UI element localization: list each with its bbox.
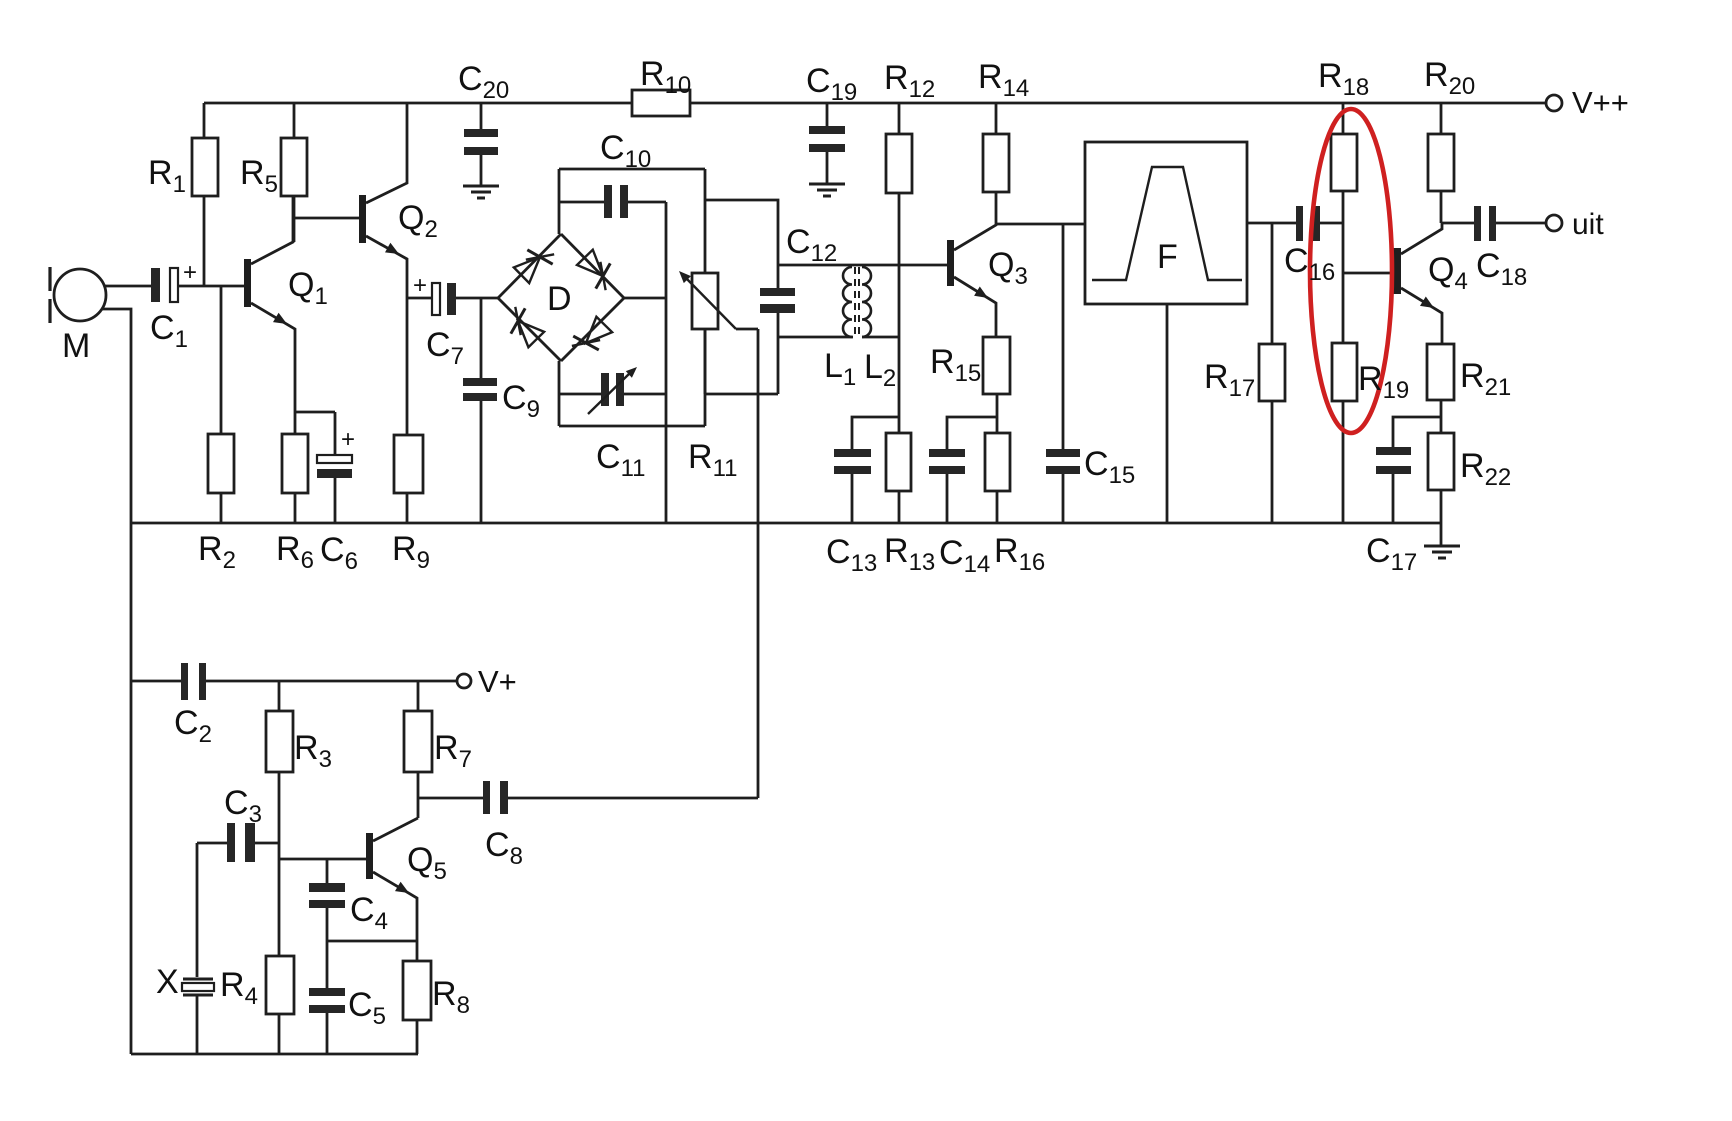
svg-text:X: X [156,963,179,1001]
wire bridge frame left upper [558,169,561,234]
transistor Q2 [359,103,407,298]
transistor Q3 [947,224,996,337]
diode D top-right [577,250,610,290]
capacitor C12 [760,288,795,394]
wire M to C1 [104,285,152,288]
wire R11 bottom to C12 foot [705,393,778,396]
diode D top-left [514,250,554,283]
transistor Q1 [244,196,295,434]
capacitor C14 [929,417,997,523]
ground main [1424,546,1460,558]
wire R22 to ground [1440,490,1443,546]
wire Q5 base wire [279,858,366,861]
wire bridge frame bottom [559,425,705,428]
label R16 [994,532,1045,576]
wire R20 bottom lead [1440,191,1443,223]
capacitor C3 [197,823,255,862]
label C15 [1084,445,1135,489]
wire wiper drop to oscillator [757,329,760,798]
capacitor C4 [309,859,345,988]
label C5 [348,986,386,1030]
capacitor C2 [181,663,206,700]
label R20 [1424,56,1475,100]
wire bridge frame left lower [558,361,561,426]
wire R2 bottom lead [220,493,223,523]
wire R6 bottom lead [294,493,297,523]
wire Q4 collector to C18 [1442,222,1474,225]
label F [1157,238,1178,276]
label C12 [786,223,837,267]
capacitor C1 [151,259,197,302]
wire R12 to R13 [898,193,901,433]
capacitor C17 [1376,447,1411,523]
label C13 [826,533,877,577]
resistor R4 [266,956,294,1014]
wire bridge frame right lower [704,329,707,426]
wire Q2 emitter to C7 [407,297,432,300]
capacitor C5 [309,988,345,1054]
svg-text:uit: uit [1572,208,1604,241]
wire C10 node vertical [665,202,668,523]
resistor R13 [886,433,911,491]
transistor Q4 [1393,223,1442,344]
label R10 [640,55,691,99]
wire C3 to R3 node [255,842,279,845]
resistor R20 [1428,134,1454,191]
wire C2 to V+ terminal [206,680,457,683]
wire bottom bus [131,522,1441,525]
label L2 [864,348,896,392]
diode bridge D outline [498,234,624,361]
wire R14 bottom lead [995,192,998,224]
diode D bottom-left [511,307,544,347]
capacitor C20 [464,103,498,186]
svg-text:+: + [183,259,197,286]
label C3 [224,784,262,828]
capacitor C8 [483,781,508,814]
label X [156,963,179,1001]
capacitor C18 [1474,206,1496,241]
label R7 [434,729,472,773]
label R3 [294,729,332,773]
label C10 [600,129,651,173]
wire R1 bottom lead [203,196,206,286]
label R12 [884,59,935,103]
capacitor C9 [463,298,497,523]
wire R17 leads [1271,223,1274,523]
wire C3 to crystal [196,843,199,977]
label C11 [596,438,645,482]
label R18 [1318,57,1369,101]
label M [62,327,90,365]
label C6 [320,531,358,575]
diode D bottom-right [572,317,612,350]
transistor Q5 [366,818,418,961]
label R2 [198,530,236,574]
resistor R21 [1427,344,1454,400]
label R9 [392,530,430,574]
wire bridge right corner to node [624,297,666,300]
capacitor C13 [834,417,899,523]
wire R18-R19 vertical [1342,191,1345,343]
terminal V++ [1546,85,1629,120]
wire R21 to R22 [1440,400,1443,433]
resistor R15 [983,337,1010,394]
wire V+ feed [131,680,181,683]
wire R4 bottom lead [278,1014,281,1054]
label R21 [1460,357,1511,401]
label C17 [1366,532,1417,576]
label R8 [432,975,470,1019]
wire R13 bottom lead [898,491,901,523]
label R13 [884,532,935,576]
capacitor C7 [413,272,456,315]
label R4 [220,966,258,1010]
wire R3 to R4 vertical [278,772,281,956]
label C19 [806,62,857,106]
resistor R6 [282,434,308,493]
wire M bottom to left bus [102,309,131,1054]
resistor R10 [632,90,690,116]
wire R11 bottom lead [704,329,707,394]
resistor R14 [983,134,1009,192]
terminal V+ [457,664,517,699]
wire C12 top to Q3 base [778,264,947,267]
wire R12 top lead [898,103,901,134]
label C9 [502,379,540,423]
resistor R11 [692,273,718,329]
microphone M [50,267,106,323]
resistor R12 [886,134,912,193]
capacitor C16 [1296,206,1320,241]
capacitor C15 [1046,224,1080,523]
ground at C20 [463,186,499,198]
capacitor C11 variable [559,367,666,414]
label Q5 [407,841,447,885]
wire C1 to Q1 base [178,285,244,288]
label Q4 [1428,251,1468,295]
wire Q3 collector to F [996,223,1085,226]
resistor R17 [1259,344,1285,401]
resistor R2 [208,434,234,493]
resistor R9 [394,435,423,493]
label C4 [350,891,388,935]
wire emitter node jog to C17 [1393,417,1441,447]
svg-text:M: M [62,327,90,365]
wire R11 wiper [679,271,758,329]
transformer core [855,267,859,337]
label R19 [1358,360,1409,404]
wire Q4 base wire [1343,272,1393,275]
svg-text:D: D [547,280,572,318]
wire C4 bottom jog to emitter [327,940,417,943]
label D [547,280,572,318]
label C1 [150,309,188,353]
filter block F [1085,142,1247,304]
wire R9 leads [406,298,409,523]
wire C7 to bridge [456,297,498,300]
label R15 [930,343,981,387]
wire R7 top lead [417,681,420,711]
label R14 [978,58,1029,102]
label R5 [240,154,278,198]
crystal X [182,979,214,1054]
wire C16 to R18 node [1320,222,1343,225]
wire C18 to uit [1496,222,1546,225]
capacitor C19 [809,103,845,184]
wire R3 top lead [278,681,281,711]
wire node to C12 top [705,200,778,288]
capacitor C10 [559,185,666,218]
label R17 [1204,358,1255,402]
svg-text:V++: V++ [1572,85,1629,120]
wire R1 top lead [203,103,206,138]
wire R5 top lead [293,103,296,138]
wire R15 bottom lead [996,394,999,433]
label C14 [939,534,990,578]
wire R8 bottom lead [416,1020,419,1054]
svg-text:V+: V+ [478,664,517,699]
svg-text:+: + [341,426,355,453]
resistor R7 [404,711,432,772]
label C16 [1284,242,1335,286]
resistor R3 [266,711,293,772]
resistor R18 [1331,134,1357,191]
label R11 [688,438,737,482]
label Q3 [988,246,1028,290]
wire oscillator bottom bus [131,1053,418,1056]
svg-text:F: F [1157,238,1178,276]
wire R18 top lead [1342,103,1345,134]
inductor L1 [843,267,852,337]
resistor R16 [985,433,1010,491]
wire C8 feed [418,797,483,800]
wire F to C16 [1247,222,1296,225]
label C7 [426,326,464,370]
resistor R1 [192,138,218,196]
inductor L2 [862,267,871,337]
resistor R8 [403,961,431,1020]
capacitor C6 electrolytic [295,412,355,523]
label Q1 [288,266,328,310]
label C20 [458,60,509,104]
wire V++ rail right segment [690,102,1546,105]
resistor R5 [281,138,307,196]
label R22 [1460,447,1511,491]
label R1 [148,154,186,198]
label Q2 [398,199,438,243]
wire R16 bottom lead [996,491,999,523]
wire L2 bottom to R13 node [862,336,899,339]
resistor R22 [1428,433,1454,490]
wire R20 top lead [1440,103,1443,134]
highlight ellipse around R18 R19 [1310,109,1392,433]
wire C8 to wiper drop [508,797,758,800]
wire R19 bottom lead [1342,401,1345,523]
ground at C19 [809,184,845,196]
wire C12 bottom to L1 [778,336,853,339]
wire R7 bottom lead [417,772,420,818]
resistor R19 [1332,343,1357,401]
terminal uit [1546,208,1604,241]
wire R5 bottom lead [293,196,296,242]
label R6 [276,530,314,574]
label C2 [174,704,212,748]
wire bridge frame top [559,168,705,171]
svg-text:+: + [413,272,427,299]
wire R2 top lead [220,286,223,434]
label L1 [824,347,856,391]
wire Q2 base wire [294,217,359,220]
label C8 [485,826,523,870]
wire bridge frame right upper [704,169,707,273]
wire F bottom lead [1166,304,1169,523]
label C18 [1476,247,1527,291]
wire V++ rail left segment [204,102,632,105]
wire R14 top lead [995,103,998,134]
